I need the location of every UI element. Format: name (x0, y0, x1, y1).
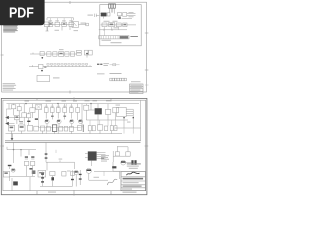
squares row b (112, 78, 114, 81)
bottom connecting wire (40, 185, 72, 187)
resistor mid row a (102, 23, 107, 27)
capacitor row3 b (31, 156, 34, 159)
resistor row1 b (55, 22, 60, 26)
title block sheet2 (121, 172, 146, 191)
resistor mid top a (84, 104, 89, 120)
row2 resistor b (46, 126, 50, 131)
bottom left dark box (13, 181, 18, 185)
title text row4 (123, 186, 142, 187)
notes text block lower-left (3, 83, 17, 90)
junction dot connector b (133, 117, 134, 118)
sheet 1 fold tick left (1, 54, 4, 56)
component cluster mid-row left (40, 52, 44, 59)
vertical texture wires top band (24, 104, 133, 134)
row2 resistor d (69, 126, 73, 131)
right loop resistor b (126, 152, 130, 156)
title block text row3 (130, 89, 140, 92)
label mid above rail c (116, 104, 121, 107)
transistor Q4 (74, 170, 78, 186)
left column vertical wire (5, 109, 7, 124)
extra wire x56 down (55, 150, 57, 153)
wire down right (132, 109, 134, 128)
vline right of block (46, 162, 48, 170)
drops to wire row2 (12, 131, 112, 134)
IC U5 dark mid (95, 104, 102, 120)
label near bottom mid (94, 176, 100, 179)
PDF badge (0, 0, 45, 25)
left cluster box b2 (17, 107, 21, 111)
caption inside subcircuit box (111, 42, 122, 43)
stub mark f (64, 64, 66, 66)
row2 pair h (110, 126, 117, 131)
box pair component (84, 50, 92, 57)
stub mark g (68, 64, 70, 66)
component box row3 (38, 170, 46, 177)
wire top mid-row left (30, 53, 45, 54)
hwire under bus left (6, 147, 8, 150)
resistor row1 a (48, 22, 53, 26)
bottom vertical e (79, 170, 82, 185)
value label row1 a (49, 19, 53, 22)
connector bar striped (99, 36, 129, 39)
label mid row (104, 20, 110, 23)
sheet 1 fold tick right (145, 69, 149, 71)
bottom vertical d (70, 170, 74, 186)
label above rail b (46, 100, 52, 103)
IC U6 dark with pins (85, 151, 106, 166)
bus line upper (5, 140, 141, 142)
transistor Q6 dark right (121, 160, 126, 165)
polarized cap cluster left (8, 165, 15, 172)
component cluster left a (15, 115, 20, 124)
junction dot connector a (123, 117, 124, 118)
resistor bank row c (56, 108, 60, 113)
label above rail a (25, 100, 30, 103)
label near Q4 (67, 170, 71, 173)
wire bottom mid (89, 179, 108, 181)
notes text mini block right (101, 155, 109, 161)
resistor bank row a (44, 108, 48, 113)
resistor row2 c (65, 52, 69, 56)
label row2 (59, 48, 64, 51)
sheet 2 zone tick top b (110, 98, 112, 100)
stub mark a (47, 64, 49, 66)
resistor labels bank (45, 105, 73, 108)
input arrow a (5, 116, 9, 119)
transistor Q5 dark (86, 168, 91, 180)
title text row2 dark (123, 178, 144, 180)
stacked pair component (77, 50, 82, 55)
bottom single c (62, 171, 66, 176)
resistor row3 b (30, 161, 34, 165)
title block text row1 (130, 84, 142, 87)
title text row5 (122, 189, 132, 190)
bottom margin text under title block (123, 192, 137, 193)
label above wire (114, 26, 120, 29)
label mid above rail b (106, 99, 112, 102)
sheet 1 border frame (2, 2, 147, 92)
small cap mid b (63, 116, 66, 117)
label smudge row a (62, 100, 67, 103)
row2 component box a (8, 125, 14, 131)
squares row g (124, 78, 126, 81)
row2 cluster f (88, 126, 95, 131)
resistor mid row b (109, 23, 115, 27)
squares row e (119, 78, 121, 81)
rail junction dot b (57, 103, 58, 104)
sheet 2 zone tick top a (36, 98, 38, 100)
wires to right edge of subcircuit (122, 14, 136, 19)
stub mark l (85, 64, 87, 66)
sheet 2 zone tick bottom a (36, 191, 38, 195)
label right of connector bar (130, 36, 138, 37)
component box top (36, 104, 42, 109)
right loop lower wire (113, 155, 130, 157)
bottom cluster b (50, 171, 55, 186)
resistor mid b (105, 104, 110, 120)
sheet 2 zone tick bottom b (110, 191, 112, 195)
title block text row2 (130, 86, 142, 89)
row2 cluster e (77, 125, 83, 132)
wires from J2 (110, 8, 115, 13)
value label row1 b (55, 19, 59, 22)
title logo squiggle (127, 172, 140, 175)
row2 resistor c (59, 126, 63, 131)
sheet 2 fold tick top (73, 97, 75, 101)
collector wire row mid (86, 119, 128, 121)
smudge below row1 b (74, 29, 79, 32)
left cluster hwire (15, 117, 22, 119)
resistor row1 c (62, 22, 67, 26)
small cap mid a (51, 116, 54, 117)
wire down from connector (123, 117, 125, 128)
squares row a (110, 78, 112, 81)
component mid c (113, 107, 119, 120)
row2 component box b (18, 125, 25, 131)
resistor mid row c (116, 23, 121, 27)
capacitor row3 a (25, 156, 28, 159)
subcircuit boundary box (100, 5, 141, 46)
title text row3 (123, 182, 139, 183)
wire row3 right (94, 171, 120, 179)
drops below row 1 (48, 26, 71, 31)
mid label smudge (93, 99, 98, 102)
wire mid row (101, 24, 137, 26)
connector bar dark segment (120, 36, 129, 38)
row2 resistor a (40, 126, 44, 131)
mid vertical wire a (81, 104, 83, 128)
sheet 1 fold tick top (69, 1, 71, 4)
left cluster dark mark b (35, 118, 38, 119)
left cluster wires (6, 104, 38, 126)
component cluster left b (22, 104, 27, 122)
row2 resistor c2 (64, 126, 68, 131)
caption lines above title block (127, 163, 141, 168)
sheet 1 fold tick right upper (145, 32, 149, 34)
notes text block upper-left (3, 25, 18, 32)
connector block right (117, 107, 134, 116)
top rail wire row 1 (47, 18, 74, 20)
connector J2 top of subcircuit (109, 4, 116, 8)
left cluster box a2 (11, 105, 15, 109)
resistor bank row b (50, 108, 54, 113)
sheet 2 fold tick right (145, 145, 149, 147)
long wire row2 bottom (6, 133, 123, 135)
row3 wire top (7, 142, 36, 163)
stub mark c (54, 64, 56, 66)
sheet 2 fold tick bottom (73, 190, 75, 196)
input arrow b (5, 122, 9, 125)
label above title block (131, 80, 141, 83)
mid hwire (89, 109, 95, 111)
right loop resistor a (115, 152, 119, 156)
right side vertical wire (140, 101, 142, 141)
pin label connector (127, 121, 131, 124)
wires down to connector bar (104, 27, 118, 36)
resistor left top (30, 104, 35, 113)
transistor Q2 (57, 119, 61, 127)
extra vline x104 (103, 171, 105, 176)
mid vertical wire b (90, 104, 92, 110)
svg-text:PDF: PDF (9, 5, 34, 22)
stub mark i (75, 64, 77, 66)
resistor in subcircuit right b (123, 13, 127, 17)
pin label subcircuit a (129, 11, 134, 14)
input wire a (9, 117, 15, 119)
bottom row dark square (32, 170, 36, 174)
wire bus row left lead (29, 65, 39, 66)
emitter wire row (39, 127, 81, 129)
squares row c (115, 78, 117, 81)
row2 cluster g (97, 125, 102, 134)
stub mark d (57, 64, 59, 66)
sheet 2 inner border (3, 100, 146, 191)
pin label subcircuit b (129, 15, 134, 18)
wire row2 (44, 53, 76, 55)
wire row at 29.8 (99, 29, 127, 31)
signature curve (107, 179, 117, 185)
component U2 with wire (72, 22, 88, 28)
left cluster box c2 (27, 114, 31, 118)
resistor row3 a (24, 161, 28, 165)
stub mark k (82, 64, 84, 66)
bus wire with stubs (43, 65, 92, 67)
resistor mid row d (123, 23, 127, 27)
stub mark j (78, 64, 80, 66)
wire below Q row (51, 112, 53, 119)
resistor bank row f (76, 108, 80, 113)
component box bottom-left (3, 171, 9, 177)
left cluster dark mark (27, 121, 30, 122)
drops from rail to resistors (46, 104, 77, 108)
resistor row1 d (69, 22, 74, 26)
label beside block (53, 77, 60, 78)
hwire y128 right (115, 127, 141, 129)
title block text row4 (130, 91, 138, 94)
sheet 1 fold tick bottom (69, 91, 71, 94)
capacitor left c (20, 122, 24, 123)
transistor Q3 (70, 119, 74, 127)
label below connector bar (102, 39, 112, 42)
value label row1 c (62, 19, 66, 22)
wire row 1 (44, 23, 74, 25)
block component lower mid (37, 75, 50, 81)
connector pads dark right (126, 160, 137, 165)
resistor in subcircuit right a (117, 13, 121, 16)
capacitor C1 with label (88, 14, 100, 17)
input wire b (9, 123, 15, 125)
component U4 row2 (59, 52, 64, 57)
right loop vline b (127, 147, 129, 152)
vertical cap chain mid (45, 142, 48, 162)
connector J1 near badge corner (44, 22, 49, 31)
row2 box g2 (104, 126, 107, 131)
ground drop with arrow (11, 134, 14, 141)
stub mark b (50, 64, 52, 66)
stub mark h (71, 64, 73, 66)
label mid row b (113, 20, 118, 23)
top supply rail (7, 103, 140, 105)
label smudge row b (73, 100, 77, 103)
row2 dark component (52, 125, 56, 132)
transistor Q3b (79, 119, 83, 123)
right loop circuit vline (117, 146, 119, 152)
resistor row2 a (47, 52, 51, 56)
wires below row3 resistors (27, 166, 33, 170)
component beside U3 (107, 13, 110, 16)
row3 dark mark c (29, 168, 32, 169)
sheet 2 fold tick left (0, 145, 4, 147)
bottom left vline a (11, 178, 13, 191)
bus line lower (5, 141, 141, 143)
value label row1 d (69, 19, 73, 22)
right loop top wire (118, 146, 129, 148)
stub mark e (61, 64, 63, 66)
drops from wire120 to row2 (90, 120, 112, 126)
smudge below row1 a (55, 29, 60, 32)
resistor row2 d (70, 52, 74, 56)
sheet1 title block (130, 84, 143, 94)
tick outside right border (145, 84, 149, 86)
label below bus (97, 72, 105, 75)
wire to title area (112, 162, 121, 171)
component box bus left (39, 64, 47, 71)
bottom left vline b (29, 177, 31, 191)
transistor Q1 (45, 119, 49, 127)
row3 extra vlines (10, 170, 33, 181)
row2 component box d2 (34, 126, 39, 131)
IC U3 dark (100, 13, 107, 19)
junction dot row3 (20, 149, 21, 150)
rail junction dot c (90, 103, 91, 104)
resistor bank row d (63, 108, 67, 113)
sheet 2 outer border (1, 98, 147, 194)
right loop vline c (112, 151, 114, 162)
caption line above squares (110, 73, 122, 74)
label mid above rail a (85, 99, 90, 102)
squares row d (117, 78, 119, 81)
bus right smudge cluster (97, 63, 109, 66)
rail junction dot a (25, 103, 26, 104)
inline component right of bus cluster (110, 64, 120, 66)
resistor row2 b (53, 52, 57, 56)
row3 extra hwire (10, 175, 35, 177)
squares row f (122, 78, 124, 81)
row2 component box c (27, 125, 32, 131)
bottom chain a (41, 172, 44, 187)
drops below resistors (46, 112, 77, 120)
wire row3 mid (46, 159, 75, 169)
resistor bank row e (69, 108, 73, 113)
wire below Q row b (64, 112, 66, 119)
bracket ticks row 1 (51, 18, 72, 22)
bottom margin tiny text left (48, 191, 56, 194)
wire X box down (38, 118, 40, 128)
